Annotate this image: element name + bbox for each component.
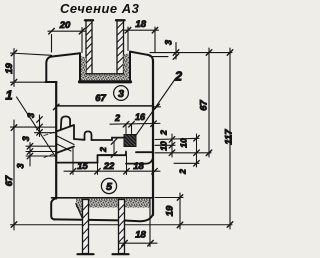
label 1 leader — [17, 97, 57, 158]
right edge x153 full — [152, 60, 154, 215]
shared bottom extension line — [11, 224, 233, 226]
dim 67 left — [11, 120, 37, 230]
dim 67 inside top rail — [53, 104, 160, 110]
label 2 leader — [136, 79, 176, 137]
top rail outline — [46, 52, 153, 106]
svg-text:67: 67 — [199, 100, 210, 111]
top sash lower profile: slant + bulbs — [56, 116, 124, 153]
dims 2 16 above seal — [110, 121, 160, 134]
svg-text:3: 3 — [15, 163, 25, 168]
svg-text:Сечение А3: Сечение А3 — [60, 1, 140, 16]
svg-text:16: 16 — [135, 112, 146, 122]
bottom rail top profile — [56, 152, 153, 164]
dashed extensions of slants — [44, 132, 56, 158]
svg-text:18: 18 — [133, 161, 144, 172]
dim 2 small (center) — [92, 139, 117, 158]
svg-text:18: 18 — [135, 19, 146, 30]
label 5 circled — [101, 178, 116, 193]
label 3 circled — [114, 86, 129, 101]
svg-text:3: 3 — [26, 113, 36, 118]
dim 20 top — [48, 28, 86, 53]
svg-text:3: 3 — [164, 40, 174, 45]
svg-text:67: 67 — [4, 175, 15, 186]
glass strip lower-right — [113, 200, 129, 255]
svg-text:3: 3 — [118, 88, 124, 100]
sash right lip bottom — [136, 151, 153, 153]
dim 19 right — [155, 193, 183, 229]
svg-text:117: 117 — [224, 129, 235, 145]
bulb 2 — [85, 131, 92, 140]
dim 117 right — [227, 48, 233, 229]
svg-text:15: 15 — [77, 161, 88, 172]
quad hatch — [57, 136, 74, 151]
svg-text:19: 19 — [165, 205, 176, 216]
svg-text:2: 2 — [174, 69, 183, 84]
svg-text:2: 2 — [114, 113, 120, 123]
dims 15 22 18 — [64, 149, 160, 175]
dims right cluster 2 10 10 2 — [155, 134, 211, 167]
svg-text:22: 22 — [103, 161, 115, 172]
quad lower edge — [56, 147, 74, 154]
svg-text:67: 67 — [95, 93, 106, 104]
seal hatch block — [124, 135, 136, 147]
glass strip upper-right — [116, 20, 125, 74]
dim 67 right — [206, 48, 212, 157]
bottom rail body — [51, 198, 153, 221]
svg-text:5: 5 — [106, 181, 112, 193]
svg-text:20: 20 — [59, 20, 71, 31]
svg-text:2: 2 — [98, 147, 108, 153]
svg-text:10: 10 — [159, 141, 169, 151]
svg-text:19: 19 — [4, 63, 15, 74]
dim 18 top — [125, 27, 159, 52]
left dims 3x3 — [26, 115, 56, 166]
bottom putty stipple — [76, 199, 150, 219]
svg-text:2: 2 — [178, 169, 188, 175]
dim 18 bottom — [119, 199, 157, 247]
putty stipple top channel — [81, 53, 131, 81]
svg-text:3: 3 — [21, 136, 31, 141]
bulb 1 — [61, 116, 70, 129]
svg-text:18: 18 — [135, 230, 146, 241]
svg-text:2: 2 — [159, 130, 169, 136]
left edge of sash assembly — [55, 82, 57, 199]
glass strip lower-left — [78, 200, 94, 255]
svg-text:10: 10 — [179, 138, 189, 148]
glass strip upper-left — [85, 20, 93, 74]
dim 19 left — [11, 49, 57, 87]
dim 3 top right — [150, 43, 232, 60]
svg-text:1: 1 — [5, 88, 12, 103]
